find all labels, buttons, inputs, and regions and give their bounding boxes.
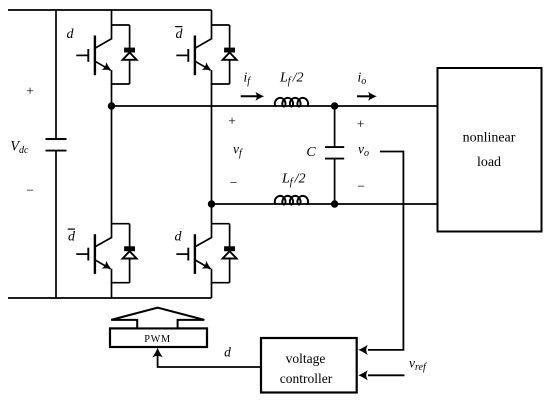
capacitor Vdc (DC link source) <box>46 139 67 151</box>
svg-text:+: + <box>357 116 365 131</box>
wire: right leg, node B to Q4 collector <box>211 204 213 238</box>
transistor Q3 (bottom-left, duty d-bar) (IGBT) <box>76 234 111 274</box>
capacitor C (filter) <box>325 147 344 159</box>
load box (nonlinear load) <box>438 68 542 232</box>
node B (right bridge midpoint) <box>208 200 215 207</box>
svg-text:vf: vf <box>233 142 243 160</box>
arrow: v_ref into controller <box>358 370 368 380</box>
diode D3 (antiparallel) <box>111 224 137 283</box>
wire: node A to node C (v_f+ line, under Lf/2 top) <box>112 105 335 107</box>
svg-text:+: + <box>26 83 34 98</box>
svg-text:d: d <box>224 345 231 360</box>
transistor Q1 (top-left, duty d) (IGBT) <box>76 36 111 76</box>
svg-text:load: load <box>477 155 501 170</box>
wire: left leg, rail to Q1 collector <box>111 10 113 40</box>
voltage controller box <box>261 338 357 393</box>
svg-text:d: d <box>175 230 183 245</box>
wire: Vdc capacitor upper lead <box>55 10 57 139</box>
inductor Lf/2 (top) <box>275 98 308 107</box>
svg-text:nonlinear: nonlinear <box>463 131 516 146</box>
wire: node C to load (top) <box>335 105 438 107</box>
wire: left leg, node A to Q3 collector <box>111 106 113 238</box>
svg-text:Vdc: Vdc <box>10 139 29 157</box>
arrow: v_o feedback into controller <box>358 345 368 355</box>
wire: right leg, Q2 emitter to node B <box>211 70 213 204</box>
diode D1 (antiparallel) <box>111 25 137 84</box>
wire: capacitor C lower lead <box>334 159 336 204</box>
wire: v_ref input line <box>368 374 405 376</box>
wire: node B to node D (v_f- line, under Lf/2 bottom) <box>212 203 335 205</box>
wire: v_o sense line to controller <box>368 152 403 350</box>
block arrow: PWM gate signals to bridge <box>111 308 204 329</box>
svg-text:+: + <box>228 113 236 128</box>
wire: right leg, Q4 emitter to bottom rail <box>211 269 213 298</box>
svg-text:voltage: voltage <box>286 351 326 366</box>
diode D2 (antiparallel) <box>211 25 237 84</box>
current arrow i_o <box>357 95 371 97</box>
wire: duty signal d, controller to PWM <box>158 352 261 367</box>
wire: capacitor C upper lead <box>334 106 336 147</box>
svg-text:Lf/2: Lf/2 <box>281 172 305 189</box>
transistor Q2 (top-right, duty d-bar) (IGBT) <box>176 36 211 76</box>
wire: left leg, Q1 emitter to node A <box>111 70 113 106</box>
wire: left leg, Q3 emitter to bottom rail <box>111 269 113 298</box>
svg-text:controller: controller <box>280 371 333 386</box>
svg-text:vo: vo <box>358 142 369 160</box>
transistor Q4 (bottom-right, duty d) (IGBT) <box>176 234 211 274</box>
current arrow i_f <box>241 95 258 97</box>
wire: top DC rail <box>8 9 212 11</box>
diode D4 (antiparallel) <box>211 224 237 283</box>
svg-text:−: − <box>357 178 365 193</box>
svg-text:PWM: PWM <box>144 334 170 345</box>
PWM box <box>110 328 207 347</box>
svg-text:d: d <box>68 230 76 245</box>
wire: Vdc capacitor lower lead <box>55 151 57 298</box>
svg-text:if: if <box>244 70 252 88</box>
inductor Lf/2 (bottom) <box>275 196 308 205</box>
svg-text:io: io <box>358 70 367 88</box>
wire: bottom DC rail <box>8 297 212 299</box>
svg-text:vref: vref <box>409 355 427 373</box>
wire: right leg, rail to Q2 collector <box>211 10 213 40</box>
svg-text:d: d <box>67 27 75 42</box>
svg-text:Lf/2: Lf/2 <box>279 71 303 88</box>
arrow: d into PWM block <box>152 348 162 358</box>
svg-text:d: d <box>176 27 184 42</box>
node A (left bridge midpoint) <box>108 102 115 109</box>
wire: node D to load (bottom) <box>335 203 438 205</box>
node C (filter top junction) <box>331 102 338 109</box>
svg-text:−: − <box>230 175 238 190</box>
node D (filter bottom junction) <box>331 200 338 207</box>
svg-text:−: − <box>26 183 34 198</box>
svg-text:C: C <box>306 145 316 160</box>
